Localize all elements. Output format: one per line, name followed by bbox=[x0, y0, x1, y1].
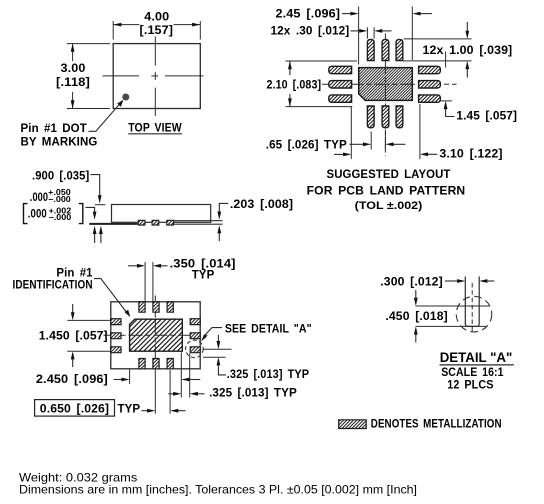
pin 1 dot leader line bbox=[89, 104, 120, 132]
svg-text:Pin #1 DOT: Pin #1 DOT bbox=[21, 123, 87, 135]
svg-text:[.118]: [.118] bbox=[56, 77, 90, 89]
svg-text:.000: .000 bbox=[30, 192, 48, 204]
dim .000 up arrows bbox=[94, 234, 96, 243]
svg-text:1.45 [.057]: 1.45 [.057] bbox=[456, 111, 517, 123]
svg-text:.65 [.026] TYP: .65 [.026] TYP bbox=[266, 140, 347, 152]
dim 1.45 extension line bbox=[441, 100, 452, 102]
top view body outline bbox=[113, 44, 200, 109]
dim .450 extension lines bbox=[416, 305, 490, 307]
svg-text:2.45 [.096]: 2.45 [.096] bbox=[276, 9, 341, 21]
dim .30 extension ticks bbox=[366, 27, 368, 38]
dim 3.10 arrows bbox=[334, 153, 343, 155]
dim .000 leader and down arrow bbox=[86, 207, 95, 212]
bottom view horizontal centerline bbox=[104, 334, 208, 336]
dim 1.45 leader and arrow bbox=[444, 101, 448, 109]
svg-text:1.450 [.057]: 1.450 [.057] bbox=[39, 331, 108, 343]
detail A pad outline bbox=[465, 277, 479, 327]
dim 2.10 dimension line and arrows bbox=[289, 61, 291, 75]
svg-text:.203 [.008]: .203 [.008] bbox=[230, 199, 293, 211]
svg-text:2.10 [.083]: 2.10 [.083] bbox=[267, 79, 322, 91]
side view seating plane thick segment bbox=[89, 223, 137, 225]
svg-text:12x .30 [.012]: 12x .30 [.012] bbox=[271, 25, 350, 37]
svg-text:4.00: 4.00 bbox=[144, 12, 169, 24]
detail A title underline bbox=[440, 364, 514, 366]
svg-text:.000: .000 bbox=[28, 208, 47, 220]
dim .65 arrows bbox=[350, 143, 364, 145]
pin 1 identification leader bbox=[94, 279, 127, 313]
svg-text:.325 [.013] TYP: .325 [.013] TYP bbox=[209, 387, 297, 399]
dim 3.10 extension lines bbox=[350, 107, 352, 159]
dim .300 arrows bbox=[445, 280, 457, 282]
tolerance bracket left bbox=[24, 204, 28, 224]
see detail A leader bbox=[205, 328, 222, 336]
svg-text:TYP: TYP bbox=[192, 270, 215, 282]
dim 4.00 [.157] extension lines bbox=[112, 21, 114, 40]
dim .65 extension ticks bbox=[370, 132, 372, 150]
svg-text:DENOTES METALLIZATION: DENOTES METALLIZATION bbox=[371, 419, 502, 431]
dim .325 upper arrows and leader bbox=[217, 335, 219, 341]
dim 1.00 arrows bbox=[466, 22, 468, 31]
dim 1.45 upper extension tick bbox=[445, 52, 447, 68]
bottom pad 3 centerline extension bbox=[169, 370, 171, 414]
dim .203 up arrow bbox=[218, 234, 220, 242]
svg-text:.900 [.035]: .900 [.035] bbox=[32, 170, 89, 182]
svg-text:FOR PCB LAND PATTERN: FOR PCB LAND PATTERN bbox=[307, 186, 466, 198]
svg-text:SUGGESTED LAYOUT: SUGGESTED LAYOUT bbox=[327, 169, 451, 181]
dim 1.450 extension lines bbox=[67, 319, 110, 321]
svg-text:DETAIL "A": DETAIL "A" bbox=[440, 349, 513, 365]
dim .30 arrows bbox=[351, 30, 360, 32]
svg-text:[.157]: [.157] bbox=[140, 25, 174, 37]
svg-text:−.000: −.000 bbox=[49, 213, 72, 222]
bottom view body outline bbox=[111, 302, 200, 369]
svg-text:.450 [.018]: .450 [.018] bbox=[385, 311, 447, 323]
svg-text:.325 [.013] TYP: .325 [.013] TYP bbox=[227, 369, 310, 381]
detail A dashed circle bbox=[186, 340, 204, 358]
top view horizontal centerline bbox=[103, 75, 140, 77]
dim 2.450 extension line bbox=[129, 369, 131, 384]
svg-text:(TOL ±.002): (TOL ±.002) bbox=[355, 200, 423, 212]
svg-text:SEE DETAIL "A": SEE DETAIL "A" bbox=[225, 323, 312, 335]
dim 2.10 extension lines bbox=[285, 60, 357, 62]
dim 4.00 [.157] dimension line and arrows bbox=[113, 24, 139, 26]
dim 1.450 arrows bbox=[72, 304, 74, 312]
detail A view dashed circle bbox=[456, 296, 492, 332]
top view vertical centerline bbox=[154, 37, 156, 66]
dim .350 extension ticks bbox=[144, 262, 146, 302]
dim 0.650 boxed label bbox=[35, 400, 115, 417]
svg-text:−.000: −.000 bbox=[48, 195, 71, 204]
svg-text:.300 [.012]: .300 [.012] bbox=[380, 276, 443, 288]
dim 2.45 arrows bbox=[342, 13, 351, 15]
svg-text:2.450 [.096]: 2.450 [.096] bbox=[36, 374, 108, 386]
dim .325 lower arrows bbox=[168, 393, 173, 395]
dim .325 right gap extension lines bbox=[180, 353, 182, 398]
detail A pad centerline bbox=[471, 283, 473, 333]
svg-text:TOP VIEW: TOP VIEW bbox=[128, 122, 182, 134]
svg-text:BY MARKING: BY MARKING bbox=[21, 137, 98, 149]
svg-text:Dimensions are in mm [inches].: Dimensions are in mm [inches]. Tolerance… bbox=[19, 483, 417, 497]
tolerance bracket right bbox=[79, 204, 83, 224]
bottom view vertical centerline bbox=[154, 296, 156, 359]
dim 12x 1.00 extension lines bbox=[404, 38, 472, 40]
dim .203 [.008] leader bbox=[219, 203, 228, 211]
dim .900 extension tick bbox=[95, 204, 106, 206]
svg-text:3.10 [.122]: 3.10 [.122] bbox=[439, 148, 502, 160]
dim .900 leader and arrow bbox=[91, 175, 100, 194]
svg-text:.350 [.014]: .350 [.014] bbox=[170, 258, 236, 270]
TOP VIEW underline bbox=[128, 133, 182, 135]
svg-text:12x 1.00 [.039]: 12x 1.00 [.039] bbox=[423, 45, 513, 57]
dim 3.00 [.118] extension lines bbox=[67, 43, 110, 45]
dim .325 upper extension lines bbox=[203, 348, 232, 350]
svg-text:TYP: TYP bbox=[118, 403, 141, 415]
pin 1 dot marking bbox=[122, 94, 129, 101]
side view body outline bbox=[112, 205, 211, 223]
dim .350 arrows bbox=[128, 265, 137, 267]
dim .450 arrows bbox=[415, 290, 417, 298]
svg-text:0.650 [.026]: 0.650 [.026] bbox=[40, 403, 109, 415]
svg-text:12 PLCS: 12 PLCS bbox=[447, 380, 493, 392]
dim 0.650 arrows bbox=[142, 410, 148, 412]
svg-text:SCALE 16:1: SCALE 16:1 bbox=[441, 367, 504, 379]
side view terminal upper line bbox=[173, 220, 222, 222]
svg-text:IDENTIFICATION: IDENTIFICATION bbox=[13, 280, 93, 292]
dim 3.00 [.118] dimension line and arrows bbox=[72, 44, 74, 61]
dim 2.450 arrows bbox=[114, 379, 122, 381]
side view terminal lower line bbox=[173, 223, 222, 225]
land pattern vertical centerline bbox=[384, 34, 386, 157]
dim 2.45 extension lines bbox=[358, 7, 360, 65]
svg-text:Pin #1: Pin #1 bbox=[56, 267, 93, 279]
land pattern horizontal centerline bbox=[322, 83, 457, 85]
svg-text:3.00: 3.00 bbox=[61, 63, 86, 75]
